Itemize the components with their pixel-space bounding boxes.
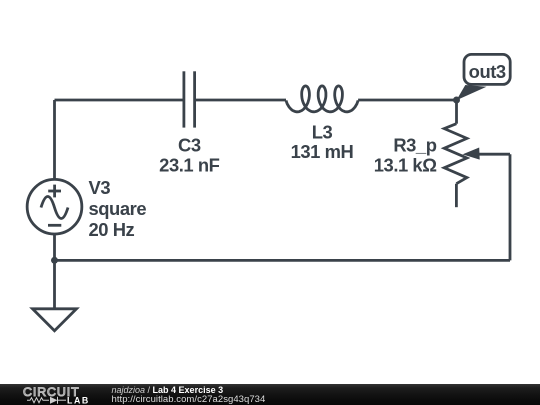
wire inductor to node bbox=[358, 99, 456, 102]
svg-text:C3: C3 bbox=[178, 135, 201, 156]
svg-text:13.1 kΩ: 13.1 kΩ bbox=[374, 155, 437, 176]
credit text bbox=[112, 386, 224, 394]
wire cap to inductor bbox=[195, 99, 286, 102]
wire top-left vertical bbox=[53, 100, 56, 179]
node out3 junction dot bbox=[453, 97, 460, 104]
capacitor C3 bbox=[184, 71, 195, 127]
svg-text:square: square bbox=[89, 198, 147, 219]
wire bottom horizontal bbox=[55, 259, 511, 262]
wire source bottom bbox=[53, 234, 56, 260]
wire top horizontal left segment bbox=[55, 99, 184, 102]
svg-text:out3: out3 bbox=[469, 61, 506, 82]
V3 minus sign bbox=[48, 224, 61, 227]
voltage source V3 circle bbox=[27, 179, 82, 234]
potentiometer R3_p zigzag body bbox=[444, 124, 467, 184]
svg-text:L3: L3 bbox=[312, 121, 333, 142]
inductor L3 bbox=[286, 86, 358, 112]
svg-text:R3_p: R3_p bbox=[393, 135, 436, 156]
svg-text:20 Hz: 20 Hz bbox=[89, 219, 135, 240]
wiper arrowhead bbox=[463, 148, 480, 160]
wire right vertical bbox=[509, 154, 512, 260]
svg-text:V3: V3 bbox=[89, 177, 111, 198]
ground symbol bbox=[33, 309, 77, 331]
circuitlab logo bbox=[22, 385, 97, 405]
V3 sine symbol bbox=[41, 197, 68, 219]
wire ground stem bbox=[53, 260, 56, 308]
V3 plus sign bbox=[48, 185, 61, 198]
net flag pointer wedge bbox=[456, 85, 486, 100]
svg-text:131 mH: 131 mH bbox=[291, 141, 354, 162]
svg-text:LAB: LAB bbox=[67, 395, 90, 405]
wire wiper horizontal bbox=[479, 153, 511, 156]
ground node junction dot bbox=[51, 257, 58, 264]
url text bbox=[112, 394, 266, 405]
resistor bottom stub bbox=[455, 184, 458, 208]
net flag out3 box bbox=[464, 54, 510, 84]
footer bar bbox=[0, 384, 540, 405]
wire node to resistor top bbox=[455, 100, 458, 124]
svg-text:23.1 nF: 23.1 nF bbox=[159, 155, 219, 176]
